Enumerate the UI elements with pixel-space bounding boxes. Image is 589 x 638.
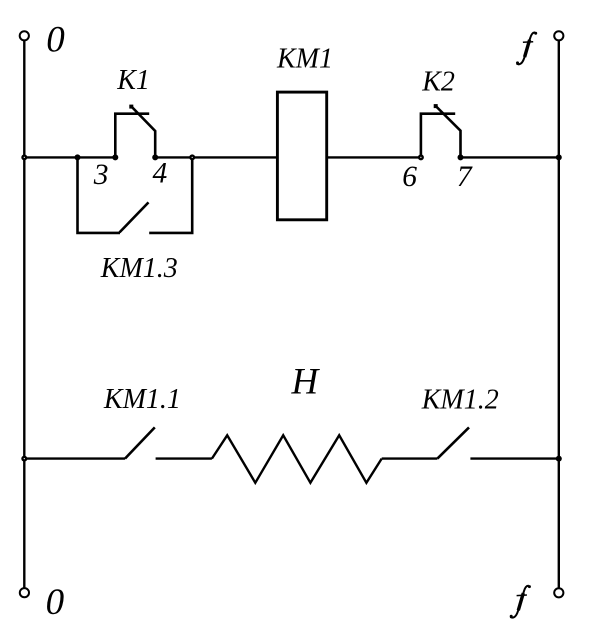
svg-text:3: 3	[93, 159, 109, 191]
svg-text:H: H	[291, 361, 321, 402]
svg-text:0: 0	[46, 582, 65, 623]
svg-text:4: 4	[153, 158, 168, 190]
svg-text:KM1.2: KM1.2	[421, 385, 499, 416]
svg-text:KM1: KM1	[276, 43, 333, 74]
svg-text:0: 0	[46, 19, 65, 60]
svg-text:6: 6	[402, 161, 417, 193]
svg-text:K2: K2	[421, 67, 455, 98]
svg-text:K1: K1	[116, 65, 150, 96]
svg-text:KM1.1: KM1.1	[103, 384, 181, 415]
svg-text:KM1.3: KM1.3	[100, 253, 178, 284]
svg-text:7: 7	[457, 161, 473, 193]
